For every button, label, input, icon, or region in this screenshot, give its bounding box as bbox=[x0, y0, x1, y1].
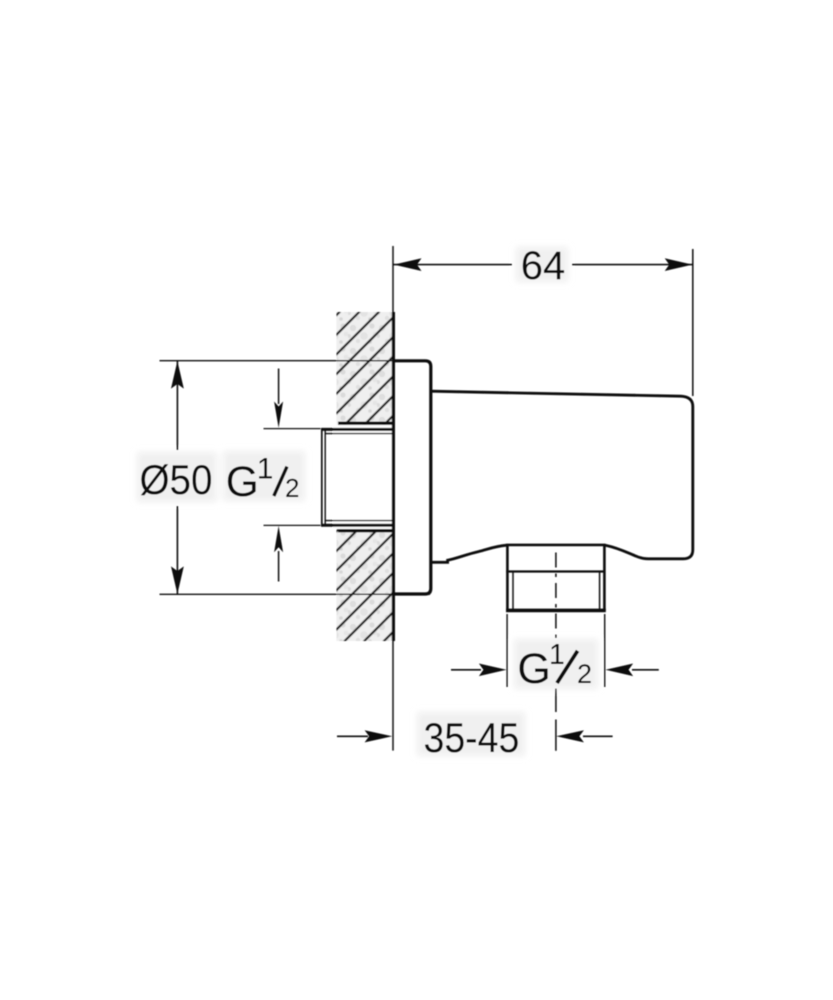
svg-text:2: 2 bbox=[577, 659, 592, 689]
svg-text:G: G bbox=[517, 645, 550, 693]
svg-text:35-45: 35-45 bbox=[424, 714, 520, 761]
svg-text:64: 64 bbox=[521, 244, 566, 288]
svg-text:Ø50: Ø50 bbox=[140, 456, 213, 503]
svg-text:G: G bbox=[226, 459, 259, 506]
svg-text:2: 2 bbox=[285, 473, 299, 503]
svg-text:1: 1 bbox=[549, 639, 565, 671]
svg-text:1: 1 bbox=[257, 452, 274, 485]
